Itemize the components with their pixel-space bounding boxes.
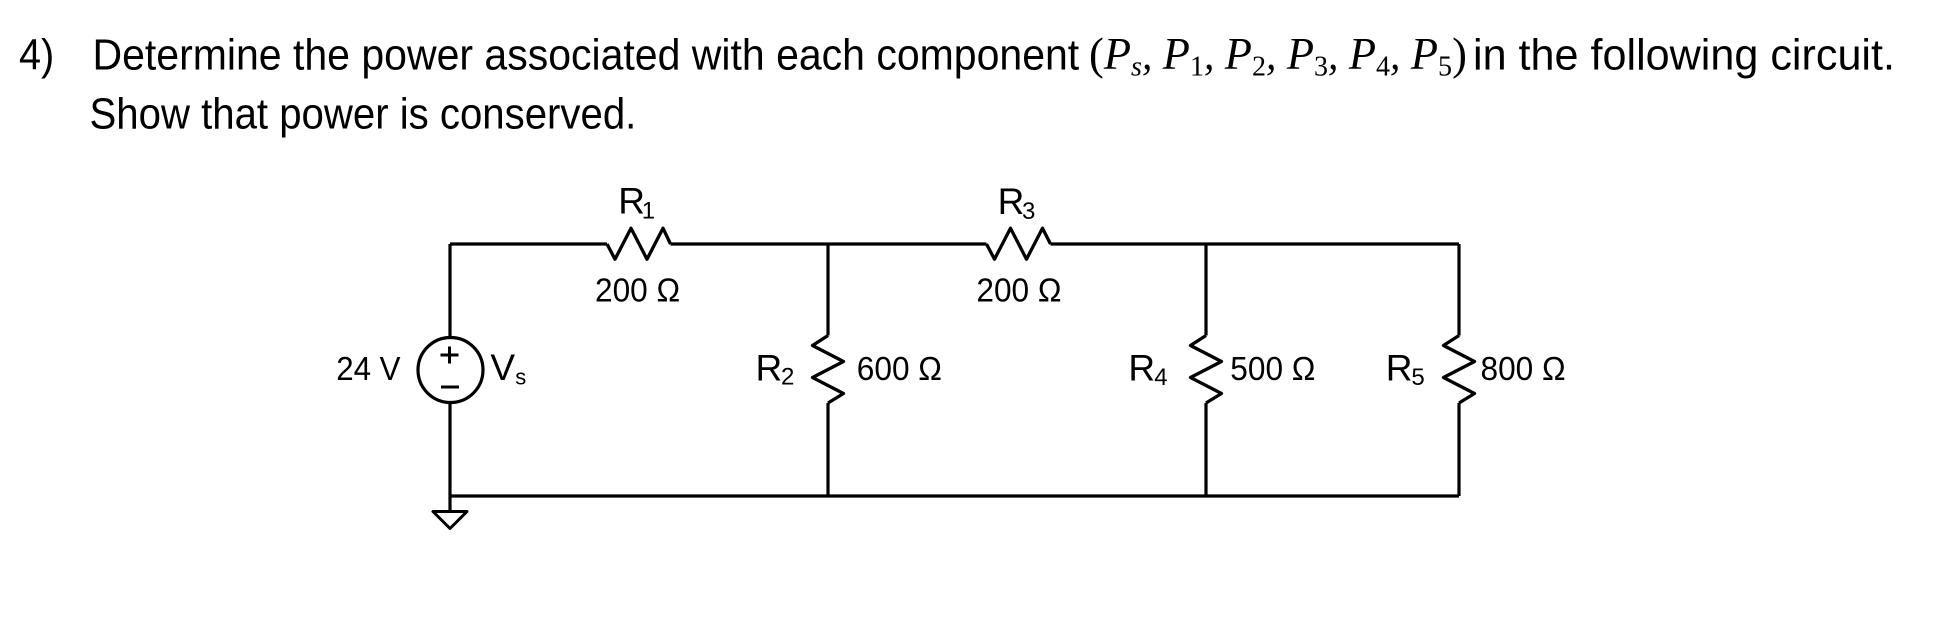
svg-text:(Ps, P1, P2, P3, P4, P5): (Ps, P1, P2, P3, P4, P5)	[1089, 29, 1467, 83]
resistor R5 (vertical zigzag)	[1444, 336, 1475, 404]
svg-text:500 Ω: 500 Ω	[1230, 350, 1315, 387]
svg-text:600 Ω: 600 Ω	[857, 350, 942, 387]
svg-text:2: 2	[781, 364, 794, 391]
svg-text:4): 4)	[19, 30, 54, 79]
svg-text:200 Ω: 200 Ω	[595, 272, 680, 309]
svg-text:R: R	[1128, 348, 1155, 389]
svg-text:R: R	[1386, 348, 1413, 389]
resistor R2 (vertical zigzag)	[813, 336, 844, 404]
wire: R5 branch bottom	[1457, 403, 1460, 496]
svg-text:Determine the power associated: Determine the power associated with each…	[93, 30, 1080, 80]
label R4	[1128, 348, 1167, 392]
label Vs	[490, 347, 526, 390]
label R5	[1386, 348, 1425, 392]
svg-text:s: s	[515, 365, 526, 390]
label R2	[756, 347, 795, 390]
minus sign inside source	[441, 386, 459, 389]
wire: R1 to node B (R2 tap) and on to R3	[671, 242, 987, 245]
resistor R1 (zigzag)	[607, 228, 671, 259]
svg-text:200 Ω: 200 Ω	[976, 272, 1061, 309]
problem text line 1	[19, 29, 1895, 83]
label R1	[618, 181, 655, 225]
svg-text:4: 4	[1154, 364, 1167, 391]
resistor R4 (vertical zigzag)	[1191, 336, 1222, 404]
wire: R2 branch bottom	[826, 403, 829, 496]
wire: R4 branch bottom	[1204, 403, 1207, 496]
svg-text:in the following circuit.: in the following circuit.	[1473, 31, 1895, 79]
voltage source Vs circle	[418, 338, 483, 403]
wire: node A (top-left) to resistor R1	[450, 242, 607, 245]
plus sign inside source	[441, 347, 459, 364]
resistor R3 (zigzag)	[987, 228, 1051, 259]
wire: source - down to bottom rail and ground stub	[448, 402, 451, 511]
wire: R4 branch top	[1204, 244, 1207, 336]
label R3	[998, 181, 1036, 225]
svg-text:V: V	[490, 347, 515, 388]
ground symbol (triangle)	[433, 512, 467, 529]
svg-text:5: 5	[1411, 364, 1424, 391]
wire: R2 branch top	[826, 244, 829, 336]
svg-text:Show that power is conserved.: Show that power is conserved.	[90, 89, 637, 138]
wire: bottom rail	[450, 494, 1459, 497]
wire: R3 to node C (R4 tap) and top-right corner	[1051, 242, 1460, 245]
wire: R5 branch top (right edge)	[1457, 244, 1460, 336]
svg-text:1: 1	[642, 198, 655, 225]
svg-text:800 Ω: 800 Ω	[1481, 350, 1566, 387]
svg-text:3: 3	[1022, 198, 1035, 225]
svg-text:R: R	[756, 347, 783, 388]
svg-text:R: R	[998, 181, 1025, 222]
wire: left branch top (node A down to source +)	[448, 244, 451, 338]
svg-text:24 V: 24 V	[336, 350, 401, 387]
